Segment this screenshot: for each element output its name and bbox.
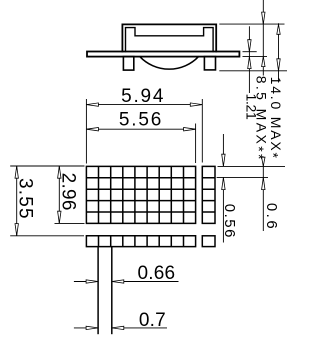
svg-text:5.94: 5.94	[121, 86, 165, 107]
ext line dot bottom right	[217, 176, 268, 178]
svg-text:0.6: 0.6	[263, 203, 280, 231]
dimension line 0.66	[74, 281, 179, 283]
dimension and extension lines	[10, 0, 287, 328]
ext line top left matrix	[10, 165, 84, 167]
left leg	[123, 57, 133, 71]
ext line flange bottom right	[243, 56, 268, 58]
arrow 1.21 top	[248, 40, 251, 52]
arrow 0.6 bottom	[262, 178, 265, 190]
arrow 0.56 top	[222, 154, 225, 166]
svg-text:2.96: 2.96	[57, 173, 78, 211]
arrow 8.5 bottom	[262, 57, 265, 67]
lead wire lines	[98, 247, 112, 335]
arrow 2.96 top	[58, 166, 61, 178]
dimension line 2.96	[58, 166, 60, 223]
ext line right of 5.94	[201, 99, 203, 163]
arrowheads	[15, 12, 280, 330]
ext line right of 5.56	[195, 124, 197, 164]
dimension line 0.7	[74, 327, 167, 329]
dimension line 0.6	[262, 157, 264, 231]
arrow 5.94 left	[86, 103, 98, 106]
svg-text:5.56: 5.56	[119, 109, 163, 130]
lens dome arc	[140, 57, 198, 69]
side view inner ledge lines	[126, 28, 214, 52]
dimension line 1.21	[248, 26, 250, 93]
arrow 3.55 top	[15, 166, 18, 178]
ext line leg bottom right	[219, 70, 287, 72]
dimension line 5.56	[86, 128, 195, 130]
arrow 14.0 bottom	[277, 59, 280, 71]
svg-text:14.0 MAX*: 14.0 MAX*	[266, 77, 284, 160]
dimension line 3.55	[16, 166, 18, 235]
ext line left of 5.94	[85, 99, 87, 164]
ext line flange top right	[243, 51, 257, 53]
arrow 0.66 right	[112, 280, 124, 283]
svg-text:0.66: 0.66	[138, 263, 176, 284]
main grid 9x5	[86, 166, 195, 223]
ext line bottom 3.55	[10, 235, 84, 237]
arrow 2.96 bottom	[58, 211, 61, 223]
dimension texts	[15, 86, 176, 331]
flange	[87, 52, 239, 57]
right leg	[204, 57, 215, 70]
arrow 14.0 top	[277, 24, 280, 34]
dot matrix front view	[86, 166, 215, 246]
dimension line 14.0 MAX	[278, 23, 280, 82]
arrow 0.6 top	[262, 157, 265, 166]
arrow 5.56 left	[86, 128, 98, 131]
svg-text:0.7: 0.7	[139, 310, 166, 331]
corner separated square	[202, 236, 215, 247]
right separated column 1x5	[202, 166, 215, 223]
dimension line 0.56	[222, 134, 224, 243]
dimension line 5.94	[86, 104, 202, 106]
arrow 8.5 top	[262, 12, 265, 24]
ext line bottom 2.96	[55, 222, 85, 224]
arrow 0.66 left	[86, 280, 98, 283]
svg-text:8.5 MAX**: 8.5 MAX**	[251, 76, 269, 162]
bottom separated row 1x9	[86, 236, 195, 247]
arrow 5.56 right	[184, 128, 196, 131]
arrow 3.55 bottom	[15, 224, 18, 236]
arrow 0.7 right	[112, 326, 124, 329]
arrow 5.94 right	[190, 103, 202, 106]
side view package body outline	[87, 24, 239, 70]
ext line dot top right	[218, 165, 286, 167]
svg-text:3.55: 3.55	[15, 178, 36, 220]
arrow 0.56 bottom	[222, 178, 225, 190]
arrow 0.7 left	[86, 326, 98, 329]
dimension line 8.5 MAX	[262, 0, 264, 76]
ext line body top right	[219, 23, 284, 25]
arrow 1.21 bottom	[248, 57, 251, 69]
svg-text:0.56: 0.56	[221, 204, 238, 239]
